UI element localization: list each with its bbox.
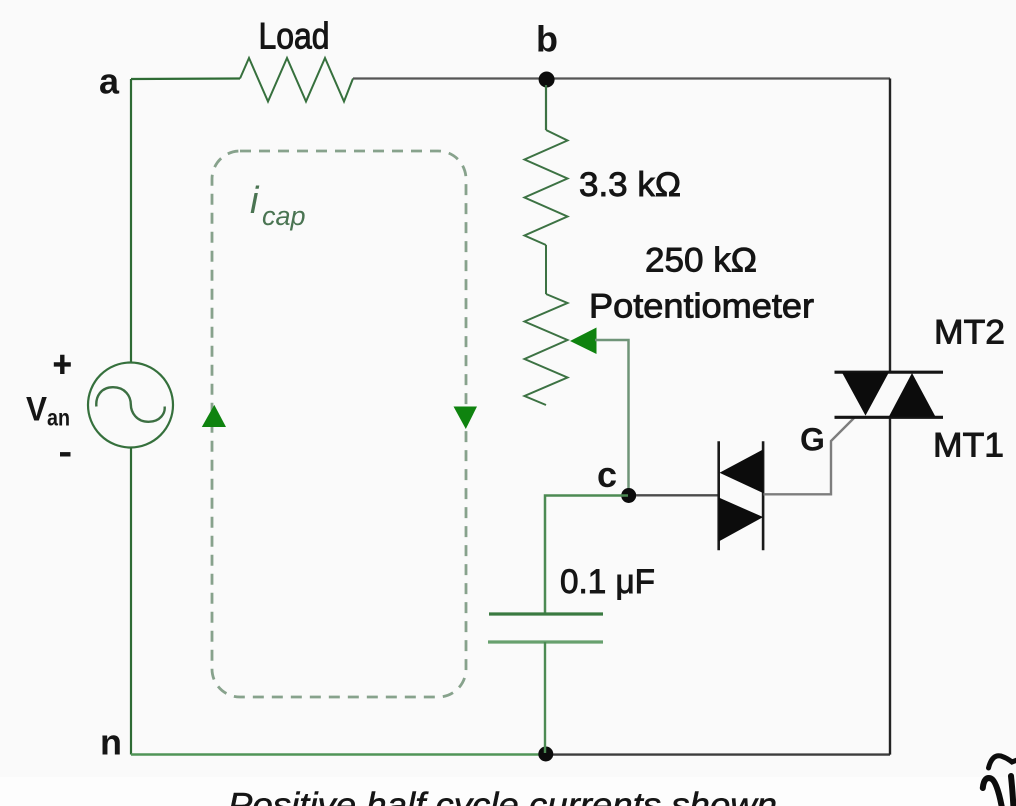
wire: c to diac (636, 494, 719, 496)
svg-text:MT2: MT2 (934, 314, 1005, 352)
wire: bottom gray (546, 753, 890, 755)
svg-text:0.1 μF: 0.1 μF (560, 563, 655, 601)
wire: between resistor and pot (545, 245, 547, 294)
diac lower triangle (719, 498, 763, 542)
dashed current loop (212, 151, 466, 697)
wire: bottom green (131, 753, 546, 756)
wire: c to cap (545, 496, 628, 615)
wire: cap to bottom (544, 642, 546, 753)
wire: right vertical upper (889, 79, 891, 373)
node b dot (539, 72, 555, 88)
label plus (54, 355, 71, 374)
triac top line MT2 (835, 371, 944, 374)
svg-text:Positive half cycle currents s: Positive half cycle currents shown (228, 787, 777, 806)
handwritten tilde (989, 756, 1016, 768)
wire: diac to gate (764, 418, 855, 495)
svg-text:250 kΩ: 250 kΩ (645, 242, 757, 280)
diac left bar (717, 441, 720, 550)
svg-text:V: V (26, 391, 47, 429)
triac bottom line MT1 (835, 416, 944, 419)
triac left triangle (842, 373, 889, 416)
svg-text:MT1: MT1 (933, 427, 1004, 465)
loop arrow down (right) (454, 407, 478, 430)
capacitor top plate (489, 612, 603, 615)
source V_an circle (88, 363, 173, 448)
svg-text:Load: Load (259, 16, 330, 57)
wire: wiper to down (595, 340, 629, 490)
handwritten v (983, 778, 1002, 806)
capacitor bottom plate (488, 640, 603, 643)
node bottom junction dot (538, 747, 553, 762)
wire: top gray load to right corner (353, 77, 890, 79)
resistor 3.3k zigzag (525, 130, 568, 245)
diac right bar (762, 441, 765, 550)
wire: top left green a to load (131, 77, 240, 80)
svg-text:cap: cap (262, 201, 306, 231)
svg-text:a: a (99, 61, 120, 102)
source sine glyph (96, 387, 164, 422)
svg-text:n: n (100, 722, 122, 763)
wire: left vertical upper (130, 79, 132, 363)
resistor Load (240, 58, 353, 102)
loop arrow up (left) (202, 405, 226, 427)
svg-text:Potentiometer: Potentiometer (589, 288, 814, 326)
wire: left vertical lower (130, 448, 132, 755)
svg-text:b: b (536, 18, 558, 59)
svg-text:G: G (800, 422, 825, 458)
svg-text:3.3 kΩ: 3.3 kΩ (579, 166, 681, 204)
wire: right vertical lower (889, 417, 891, 755)
pot wiper arrow (570, 328, 597, 355)
svg-text:an: an (47, 405, 70, 431)
diac upper triangle (720, 449, 764, 493)
potentiometer zigzag (525, 294, 568, 405)
triac right triangle (889, 373, 936, 417)
node c dot (621, 488, 636, 503)
svg-text:c: c (597, 454, 617, 495)
wire: b down (545, 85, 547, 130)
label minus (60, 452, 71, 456)
